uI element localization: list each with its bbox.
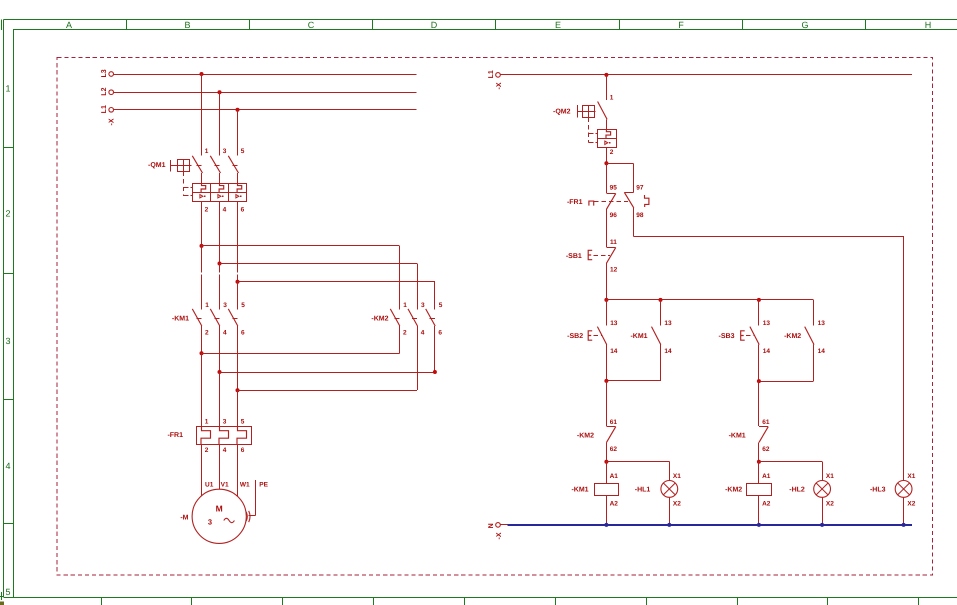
svg-text:3: 3 [5,336,10,346]
terminal L2 [101,87,113,95]
wire FR1 98 to HL3 [634,208,904,481]
terminal N [488,523,500,529]
svg-text:6: 6 [241,330,245,337]
svg-text:97: 97 [636,185,644,192]
svg-text:-QM1: -QM1 [148,162,166,169]
svg-text:A2: A2 [610,501,619,508]
QM1 trip unit box [193,183,247,213]
svg-text:-KM2: -KM2 [784,333,801,340]
svg-text:X2: X2 [673,501,681,508]
contactor KM2 aux NO contact [784,300,825,355]
node crossover phase2 [218,370,222,374]
svg-text:L1: L1 [101,105,108,113]
wire phase2 to FR1 [219,372,221,427]
coil KM1 [571,462,618,525]
svg-text:2: 2 [5,209,10,219]
wire phase 1 drop to QM1 [201,74,203,155]
thermal relay FR1 NO contact 97-98 [624,185,649,220]
svg-text:98: 98 [636,212,644,219]
wire QM2 to node [606,147,608,163]
node KM1 aux tap [659,298,663,302]
wire PE [246,480,256,522]
svg-text:F: F [678,20,684,30]
svg-text:-SB2: -SB2 [567,333,583,340]
svg-text:-FR1: -FR1 [167,432,183,439]
svg-text:-HL1: -HL1 [635,487,651,494]
svg-text:X2: X2 [907,501,915,508]
circuit breaker QM1 [148,160,193,196]
wire phase 2 QM1 to junction [219,201,221,263]
svg-text:13: 13 [664,320,672,327]
svg-text:X2: X2 [826,501,834,508]
wire L1 bus [114,109,417,111]
start pushbutton SB2 [567,300,618,355]
lamp HL2 [789,473,834,525]
wire KM2 interlock to coil node [606,442,608,461]
svg-text:-SB1: -SB1 [566,253,582,260]
wire KM1 out phase1 [201,326,203,353]
wire V1 to motor [219,444,221,489]
svg-text:3: 3 [223,148,227,155]
motor M [180,481,268,543]
QM2 trip unit box [597,119,617,156]
circuit breaker QM2 [553,95,614,143]
svg-text:X1: X1 [673,473,681,480]
svg-text:13: 13 [818,320,826,327]
coil KM2 [725,462,771,525]
wire to KM1 interlock [758,381,760,426]
svg-text:62: 62 [610,446,618,453]
svg-text:-KM2: -KM2 [725,487,742,494]
svg-text:4: 4 [223,330,227,337]
QM1 pole 3 contact [228,148,245,183]
svg-text:-QM2: -QM2 [553,109,571,116]
svg-text:A: A [66,20,72,30]
node SB3 KM2 join [757,379,761,383]
node N HL2 [820,523,824,527]
dashed drawing border [57,57,932,575]
wire branch to FR1 NO [606,163,633,165]
terminal L3 [101,69,113,77]
svg-text:6: 6 [438,330,442,337]
contactor KM2 NC interlock 61-62 [577,419,618,453]
svg-text:C: C [308,20,315,30]
QM1 pole 1 contact [192,148,209,183]
svg-text:1: 1 [205,302,209,309]
svg-text:B: B [184,20,190,30]
svg-text:-X: -X [496,532,503,539]
svg-text:61: 61 [762,419,770,426]
svg-text:5: 5 [241,419,245,426]
wire KM2 out1 crossover [399,326,401,353]
svg-text:G: G [801,20,808,30]
wire KM1 out phase2 [219,326,221,372]
svg-text:V1: V1 [221,481,229,488]
svg-text:1: 1 [610,95,614,102]
svg-text:X1: X1 [907,473,915,480]
node N KM2 coil [757,523,761,527]
contactor KM2 main contacts [371,302,442,337]
wire W1 to motor [237,444,239,496]
wire U1 to motor [201,444,203,496]
svg-text:13: 13 [610,320,618,327]
node L3 tap [200,72,204,76]
start pushbutton SB3 [719,300,771,355]
contactor KM1 aux NO contact [630,300,672,355]
svg-text:2: 2 [205,206,209,213]
stop pushbutton SB1 [566,209,618,273]
thermal relay FR1 NC contact 95-96 [567,163,617,219]
svg-text:3: 3 [223,419,227,426]
svg-text:5: 5 [241,302,245,309]
wire N stub [500,524,507,526]
FR1 trip linkage [589,201,628,206]
node KM2 coil branch [757,460,761,464]
frame row separators [4,148,14,524]
QM1 pole 2 contact [210,148,227,183]
wire L3 bus [114,74,417,76]
svg-text:11: 11 [610,239,617,246]
svg-text:-X: -X [109,118,116,125]
svg-text:L1: L1 [488,70,495,78]
wire SB1 to control bus [606,263,608,300]
node branch KM1/KM2 phase2 [218,262,222,266]
svg-text:2: 2 [205,447,209,454]
node control bus left [604,298,608,302]
svg-text:3: 3 [208,518,212,527]
wire feed to QM2 [606,75,608,100]
terminal L1 [101,105,113,113]
wire control bus 2 [606,299,813,301]
wire branch to KM2 phase2 [220,263,418,265]
svg-text:14: 14 [763,348,771,355]
wire branch to KM2 phase1 [202,245,400,247]
svg-text:N: N [488,523,495,528]
wire KM2 out2 crossover [417,326,419,390]
contactor KM1 main contacts [172,302,245,337]
svg-text:-KM1: -KM1 [630,333,647,340]
wire KM1 out phase3 [237,326,239,390]
svg-text:4: 4 [421,330,425,337]
svg-text:-X: -X [496,82,503,89]
svg-text:96: 96 [610,212,618,219]
wire branch to HL1 [606,462,669,481]
svg-text:-M: -M [180,515,188,522]
svg-text:14: 14 [664,348,672,355]
svg-text:5: 5 [439,302,443,309]
node N KM1 coil [604,523,608,527]
svg-text:L3: L3 [101,69,108,77]
wire L2 bus [114,92,417,94]
svg-text:-HL3: -HL3 [870,487,886,494]
svg-text:1: 1 [205,419,209,426]
svg-text:4: 4 [5,461,10,471]
wire phase2 down to KM1 [219,264,221,273]
svg-text:-KM2: -KM2 [577,433,594,440]
svg-text:5: 5 [5,587,10,597]
wire phase 3 QM1 to junction [237,201,239,272]
node KM1 coil branch [604,460,608,464]
svg-text:-FR1: -FR1 [567,199,583,206]
svg-text:PE: PE [259,481,268,488]
wire phase1 down to KM1 [201,246,203,273]
frame row numbers 1-5 [5,84,10,598]
terminal L1 control [488,70,500,78]
svg-text:L2: L2 [101,87,108,95]
svg-text:X1: X1 [826,473,834,480]
svg-text:2: 2 [205,330,209,337]
svg-text:H: H [925,20,932,30]
svg-text:95: 95 [610,185,618,192]
svg-text:-HL2: -HL2 [789,487,805,494]
node crossover phase1 [200,351,204,355]
svg-text:-KM1: -KM1 [172,315,189,322]
node crossover phase3 [236,388,240,392]
svg-text:D: D [431,20,438,30]
node SB3 tap [757,298,761,302]
wire SB3/KM2 join [759,345,814,382]
corner mark bottom-left [0,602,4,605]
node branch KM1/KM2 phase3 [236,280,240,284]
frame bottom ruler ticks [102,597,919,605]
wire KM2 out3 crossover [434,326,436,372]
svg-text:62: 62 [762,446,770,453]
svg-text:13: 13 [763,320,771,327]
wire SB2/KM1 join [606,345,660,381]
svg-text:2: 2 [403,330,407,337]
node SB2 KM1 join [604,379,608,383]
svg-text:4: 4 [223,447,227,454]
svg-text:-KM1: -KM1 [729,433,746,440]
svg-text:4: 4 [223,206,227,213]
wire KM1 interlock to coil node [758,442,760,461]
wire phase 2 drop to QM1 [219,92,221,155]
svg-text:U1: U1 [205,481,214,488]
node L2 tap [218,90,222,94]
svg-text:6: 6 [241,447,245,454]
svg-text:2: 2 [610,149,614,156]
svg-text:A1: A1 [610,473,619,480]
wire phase3 down to KM1 [237,282,239,310]
svg-text:61: 61 [610,419,618,426]
node crossover KM2 out3 [433,370,437,374]
svg-text:1: 1 [205,148,209,155]
svg-text:3: 3 [223,302,227,309]
lamp HL1 [635,473,681,525]
node QM2 out [604,161,608,165]
wire phase 1 QM1 to junction [201,201,203,246]
svg-text:5: 5 [241,148,245,155]
svg-text:12: 12 [610,266,618,273]
contactor KM1 NC interlock 61-62 [729,419,770,453]
svg-text:E: E [555,20,561,30]
svg-text:W1: W1 [240,481,250,488]
svg-text:A2: A2 [762,501,771,508]
svg-text:14: 14 [818,348,826,355]
svg-text:14: 14 [610,348,618,355]
wire branch to KM2 phase3 [238,281,435,283]
svg-text:1: 1 [403,302,407,309]
node L1 tap [236,108,240,112]
lamp HL3 [870,473,916,525]
svg-text:M: M [216,504,223,514]
svg-text:1: 1 [5,84,10,94]
frame column separators [127,20,866,30]
svg-text:-SB3: -SB3 [719,333,735,340]
wire branch to HL2 [759,462,823,481]
svg-text:3: 3 [421,302,425,309]
wire neutral bus N [508,524,913,526]
node N HL3 [902,523,906,527]
thermal overload relay FR1 [167,419,251,455]
node N HL1 [667,523,671,527]
node branch KM1/KM2 phase1 [200,244,204,248]
node control feed [604,73,608,77]
wire phase 3 drop to QM1 [237,110,239,156]
wire phase1 to FR1 [201,353,203,426]
wire control L1 bus [500,74,912,76]
frame column letters A-H [66,20,931,30]
svg-text:-KM1: -KM1 [571,487,588,494]
svg-text:-KM2: -KM2 [371,315,388,322]
wire to KM2 interlock [606,381,608,426]
svg-text:A1: A1 [762,473,771,480]
wire phase3 to FR1 [237,390,239,426]
svg-text:6: 6 [241,206,245,213]
